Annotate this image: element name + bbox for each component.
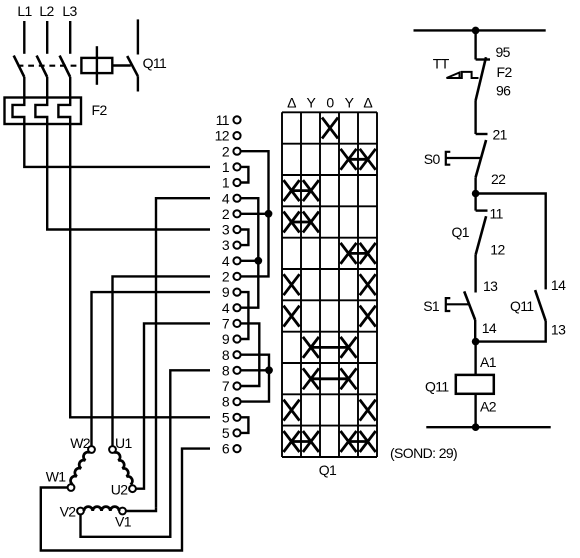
F2 heater element 2 <box>35 98 47 125</box>
cam switch terminal 2a <box>222 143 241 159</box>
wire junction to Q1 contact <box>474 194 476 211</box>
bracket terminals 5 <box>240 417 248 433</box>
junction dot 22 <box>472 190 480 198</box>
wire junction to coil A1 <box>474 342 476 375</box>
cam switch terminal 1a <box>222 159 241 175</box>
wire branch to Q11 aux <box>476 194 546 290</box>
svg-text:Q11: Q11 <box>143 55 167 71</box>
svg-text:2: 2 <box>222 269 230 285</box>
junction dot bus 4 <box>254 257 262 265</box>
cam switch terminal 6 <box>222 441 241 457</box>
F2 heater element 1 <box>13 98 25 125</box>
cam switch terminal 2b <box>222 206 241 222</box>
S0 contact fixed tick 21 <box>476 133 488 135</box>
table row4 X col1-col2 linked <box>284 212 319 233</box>
F2 heater element 3 <box>58 98 70 125</box>
svg-text:0: 0 <box>326 95 334 111</box>
cam switch terminal 5b <box>222 425 241 441</box>
bracket terminals 1 <box>240 167 248 183</box>
svg-text:L1: L1 <box>17 3 32 19</box>
motor terminal W2 <box>70 435 95 453</box>
motor terminal W1 <box>46 469 75 491</box>
Q1 contact blade <box>476 216 487 255</box>
svg-text:9: 9 <box>222 284 230 300</box>
switch Q1 pole 1 blade <box>14 56 25 77</box>
svg-text:4: 4 <box>222 190 230 206</box>
wire terminal 4 to V1 <box>156 198 210 507</box>
coil Q11 <box>456 375 494 394</box>
svg-text:5: 5 <box>222 425 230 441</box>
motor terminal V1 <box>115 508 132 530</box>
wire S1 to junction 14 <box>474 320 476 342</box>
table row6 X col1 col5 <box>284 274 376 295</box>
svg-text:F2: F2 <box>92 102 108 118</box>
cam switch terminal 11 <box>216 112 241 128</box>
junction dot bus 8 <box>265 366 273 374</box>
motor terminal V2 <box>60 504 84 520</box>
wire terminal 7 to U2 <box>136 323 210 488</box>
svg-text:12: 12 <box>215 128 230 144</box>
svg-text:13: 13 <box>483 278 498 294</box>
S1 actuator link <box>447 303 471 305</box>
bus terminals 4 <box>240 198 258 308</box>
svg-text:V1: V1 <box>115 514 132 530</box>
table row8 X col2-col4 linked <box>303 337 357 358</box>
bus terminals 2 <box>240 151 268 276</box>
cam switch terminal 1b <box>222 175 241 191</box>
svg-text:V2: V2 <box>60 504 77 520</box>
link box to contact Q11 <box>112 64 131 66</box>
S0 contact blade <box>476 140 487 177</box>
svg-text:U1: U1 <box>115 435 133 451</box>
cam switch terminal 5a <box>222 409 241 425</box>
svg-text:Q1: Q1 <box>452 224 470 240</box>
svg-text:2: 2 <box>222 143 230 159</box>
svg-text:4: 4 <box>222 253 230 269</box>
cam switch terminal 12 <box>215 128 241 144</box>
cam switch terminal 9b <box>222 331 241 347</box>
S0 actuator link <box>447 157 481 159</box>
wire L2 supply <box>46 21 48 54</box>
svg-text:Δ: Δ <box>287 95 296 111</box>
wire terminal 6 to W1 <box>41 449 210 551</box>
svg-text:TT: TT <box>433 56 450 72</box>
cam switch terminal 4b <box>222 253 241 269</box>
svg-text:A2: A2 <box>480 399 497 415</box>
svg-text:7: 7 <box>222 316 230 332</box>
thermal release symbol TT <box>447 72 479 78</box>
S1 pushbutton cap <box>446 298 451 311</box>
svg-text:L3: L3 <box>62 3 77 19</box>
svg-text:3: 3 <box>222 237 230 253</box>
junction dot 14 <box>472 338 480 346</box>
svg-text:(SOND: 29): (SOND: 29) <box>390 445 457 461</box>
cam switch terminal 7a <box>222 316 241 332</box>
wire rail to F2 contact <box>474 30 476 59</box>
cam switch terminal 8b <box>222 362 241 378</box>
wire F2 to S0 <box>474 101 476 135</box>
wire F2 phase2 to terminal 3 <box>47 124 210 230</box>
switch Q1 pole 3 blade <box>60 56 71 77</box>
bus tee terminal 4b <box>240 260 258 262</box>
svg-text:11: 11 <box>216 112 230 128</box>
bracket terminals 9 <box>240 292 248 339</box>
svg-text:U2: U2 <box>111 482 129 498</box>
winding V2-V1 <box>84 507 119 511</box>
svg-text:1: 1 <box>222 159 230 175</box>
bracket terminals 7 <box>240 323 259 386</box>
svg-text:95: 95 <box>496 44 511 60</box>
winding W2-W1 <box>71 452 90 484</box>
switch Q1 pole 2 blade <box>37 56 48 77</box>
control bottom rail <box>426 426 550 428</box>
cam switch terminal 8c <box>222 394 241 410</box>
svg-text:6: 6 <box>222 441 230 457</box>
svg-text:22: 22 <box>491 171 506 187</box>
F2 contact blade <box>476 57 486 100</box>
svg-text:Q11: Q11 <box>510 298 534 314</box>
motor terminal U1 <box>109 435 132 453</box>
Q11 aux contact blade <box>535 290 546 321</box>
table row2 X col4-col5 linked <box>341 149 376 170</box>
junction dot bus 2 <box>265 210 273 218</box>
svg-text:8: 8 <box>222 362 230 378</box>
wire terminal 9 to W2 <box>92 292 211 446</box>
overload relay F2 box <box>5 98 82 125</box>
table row7 X col1 col5 <box>284 306 376 327</box>
junction dot bottom rail <box>472 423 480 431</box>
svg-text:L2: L2 <box>39 3 54 19</box>
svg-text:8: 8 <box>222 347 230 363</box>
table row1 X col3 <box>322 118 338 139</box>
cam switch terminal 4a <box>222 190 241 206</box>
cam switch terminal 7b <box>222 378 241 394</box>
junction dot supply rail <box>472 27 480 35</box>
cam switch terminal 8a <box>222 347 241 363</box>
motor terminal U2 <box>111 482 136 498</box>
control supply rail <box>414 29 546 31</box>
cam program table grid <box>282 112 377 457</box>
table row10 X col1 col5 <box>284 400 376 421</box>
svg-text:Y: Y <box>345 95 355 111</box>
winding U1-U2 <box>114 452 132 484</box>
table row5 X col4-col5 linked <box>341 243 376 264</box>
svg-text:3: 3 <box>222 222 230 238</box>
svg-text:Y: Y <box>307 95 317 111</box>
svg-text:14: 14 <box>551 277 566 293</box>
bus tee terminal 8b <box>240 369 269 371</box>
S0 pushbutton cap <box>446 152 451 165</box>
svg-text:S1: S1 <box>423 298 440 314</box>
cam switch terminal 3a <box>222 222 241 238</box>
Q1 contact fixed tick 11 <box>476 209 488 211</box>
svg-text:1: 1 <box>222 175 230 191</box>
wire L3 supply <box>69 21 71 54</box>
cam switch terminal 2c <box>222 269 241 285</box>
svg-text:8: 8 <box>222 394 230 410</box>
wire Q1 to S1 <box>474 255 476 293</box>
cam switch terminal 4c <box>222 300 241 316</box>
svg-text:14: 14 <box>482 320 497 336</box>
svg-text:Q11: Q11 <box>425 379 449 395</box>
svg-text:12: 12 <box>490 242 505 258</box>
svg-text:2: 2 <box>222 206 230 222</box>
wire F2 phase1 to terminal 1 <box>24 124 210 167</box>
wire S0 to junction 22 <box>474 177 476 193</box>
svg-text:F2: F2 <box>497 64 513 80</box>
wire pole3 to F2 <box>69 77 71 98</box>
S1 contact blade <box>464 291 475 320</box>
wire V1 riser foot <box>126 508 156 511</box>
F2 contact fixed tick 95 <box>476 58 490 60</box>
wire L1 supply <box>23 21 25 54</box>
mechanical link dashed <box>18 65 82 67</box>
wire pole2 to F2 <box>46 77 48 98</box>
bracket terminals 3 <box>240 230 248 246</box>
table row9 X col2-col4 linked <box>303 368 357 389</box>
bus tee terminal 2b <box>240 213 268 215</box>
cam switch terminal 3b <box>222 237 241 253</box>
svg-text:21: 21 <box>493 127 508 143</box>
svg-text:S0: S0 <box>424 151 441 167</box>
svg-text:9: 9 <box>222 331 230 347</box>
table row3 X col1-col2 linked <box>284 180 319 201</box>
cam switch terminal 9a <box>222 284 241 300</box>
svg-text:Q1: Q1 <box>319 462 337 478</box>
svg-text:4: 4 <box>222 300 230 316</box>
svg-text:5: 5 <box>222 409 230 425</box>
wire terminal 2 to U1 <box>113 276 211 446</box>
svg-text:13: 13 <box>551 322 566 338</box>
svg-text:96: 96 <box>496 83 511 99</box>
svg-text:7: 7 <box>222 378 230 394</box>
svg-text:Δ: Δ <box>363 95 372 111</box>
wire terminal 8 to V2 <box>81 370 211 537</box>
table row11 X col1-col2 and col4-col5 linked <box>284 431 376 452</box>
wire F2 phase3 to terminal 5 <box>70 124 210 417</box>
wire pole1 to F2 <box>23 77 25 98</box>
bus terminals 8 <box>240 355 269 402</box>
svg-text:A1: A1 <box>480 354 497 370</box>
wire Q11 aux to bottom <box>476 321 546 342</box>
wire coil to bottom rail <box>474 394 476 427</box>
actuator box <box>81 46 112 85</box>
contact Q11 main <box>127 19 138 91</box>
svg-text:11: 11 <box>490 206 504 222</box>
svg-text:W1: W1 <box>46 469 67 485</box>
